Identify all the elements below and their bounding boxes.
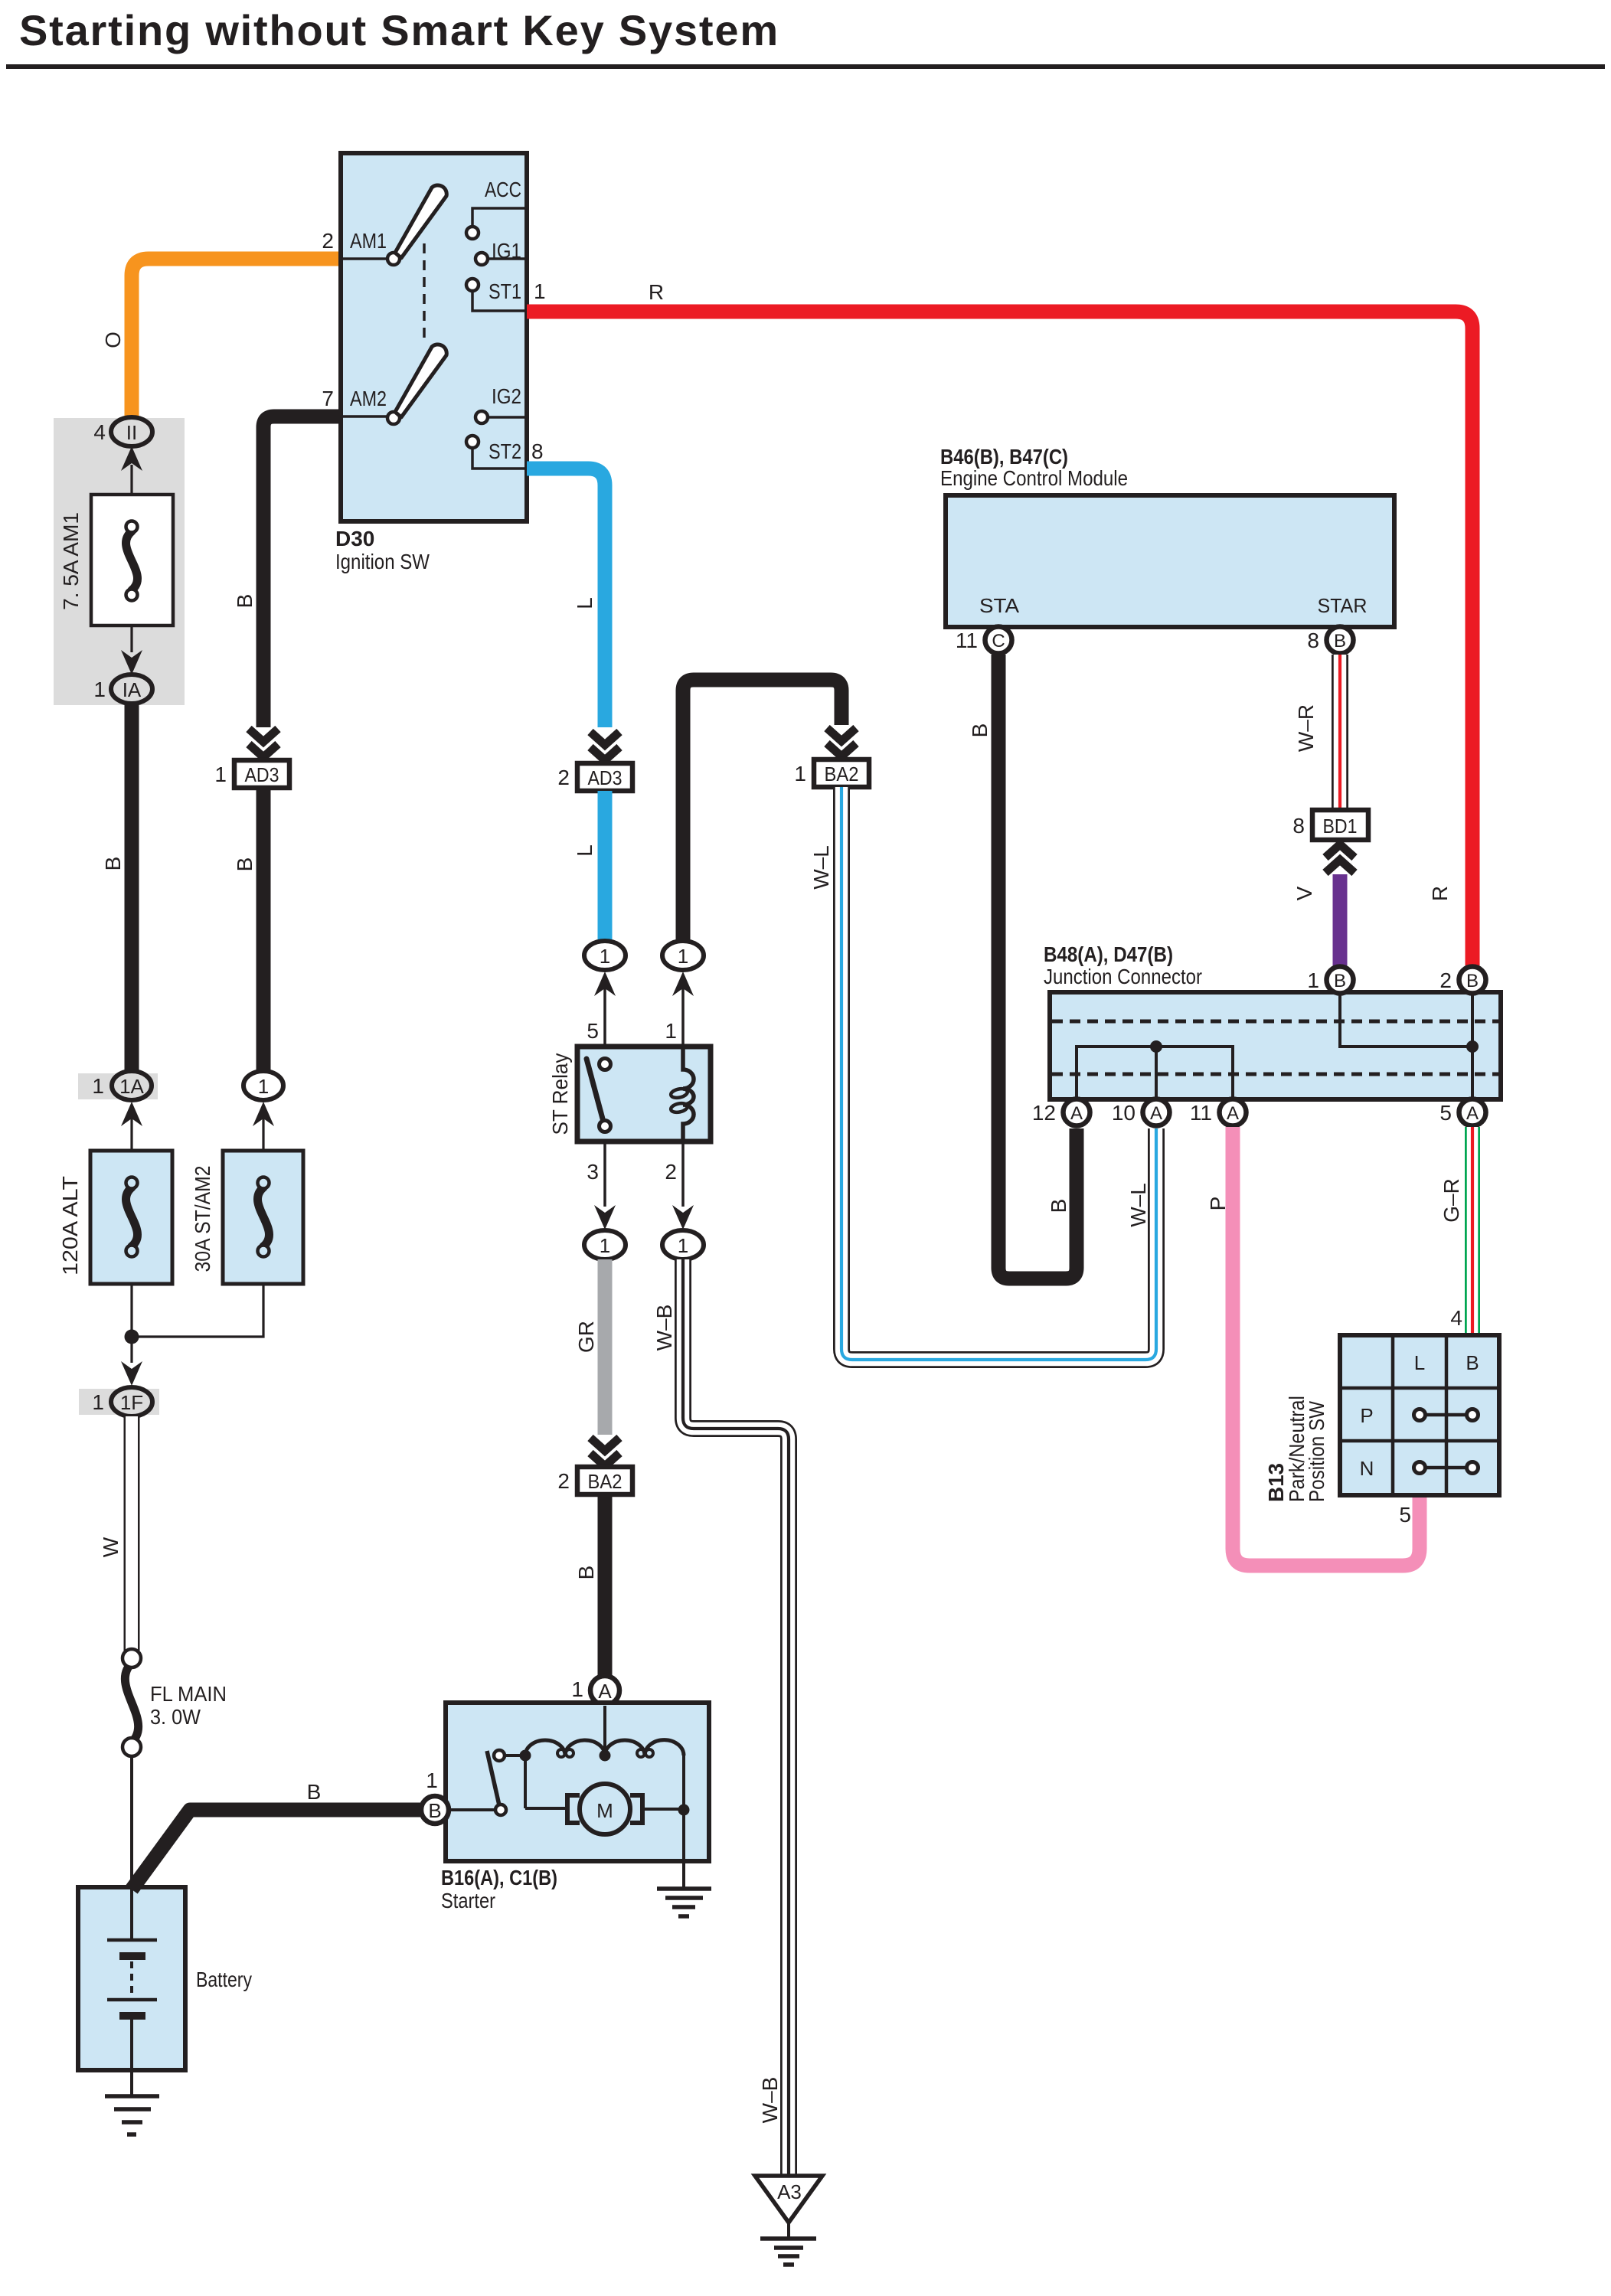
contact P row (1414, 1409, 1479, 1421)
wire 1A to fuse ALT (130, 1119, 132, 1152)
pin 8 label (1307, 629, 1319, 652)
label Battery (196, 1968, 252, 1991)
connector BA2 pin 2 (577, 1467, 632, 1494)
svg-text:II: II (126, 421, 137, 444)
svg-text:8: 8 (531, 439, 544, 463)
svg-text:V: V (1292, 886, 1316, 900)
svg-text:30A ST/AM2: 30A ST/AM2 (191, 1166, 214, 1272)
svg-text:O: O (101, 331, 125, 348)
arrow into node 1 below pin 2 (672, 1205, 694, 1230)
svg-text:Junction Connector: Junction Connector (1044, 965, 1202, 988)
svg-text:W–B: W–B (652, 1305, 676, 1351)
svg-text:W–L: W–L (809, 845, 833, 890)
svg-text:1: 1 (93, 678, 106, 701)
svg-text:1: 1 (534, 279, 546, 303)
terminal ACC (466, 178, 527, 239)
junction pin 5 A (1459, 1099, 1486, 1126)
svg-text:3: 3 (587, 1160, 599, 1184)
svg-text:1: 1 (678, 1234, 688, 1257)
battery box (78, 1887, 185, 2070)
arrow into 1F (121, 1361, 142, 1386)
fuse 30A ST/AM2 (223, 1151, 303, 1284)
svg-text:2: 2 (665, 1160, 677, 1184)
svg-text:ST1: ST1 (489, 279, 521, 303)
svg-text:1A: 1A (119, 1075, 144, 1098)
terminal AM1 (341, 253, 400, 265)
wire label P (1206, 1197, 1230, 1211)
svg-text:R: R (649, 280, 664, 304)
junction pin 2 B (1459, 967, 1486, 994)
relay switch contacts (587, 1059, 611, 1132)
svg-text:G–R: G–R (1439, 1178, 1463, 1223)
svg-text:5: 5 (587, 1019, 599, 1043)
svg-text:B: B (1334, 971, 1346, 991)
pin 2 label (557, 766, 570, 789)
ground A3 triangle (755, 2176, 822, 2223)
svg-text:BD1: BD1 (1323, 815, 1358, 838)
svg-text:B: B (1466, 971, 1479, 991)
label B16(A), C1(B) Starter (441, 1866, 557, 1912)
arrow double into AD3 (249, 729, 278, 757)
svg-text:B: B (1466, 1351, 1479, 1374)
fusible link FL MAIN 3.0W (123, 1649, 141, 1756)
svg-text:B: B (968, 723, 992, 738)
ground symbol below starter (657, 1889, 711, 1916)
arrow into 1A (121, 1102, 142, 1126)
starter coil 1 (525, 1740, 605, 1757)
junction pin 12 A (1064, 1099, 1090, 1126)
svg-text:B46(B), B47(C): B46(B), B47(C) (940, 445, 1068, 469)
label D30 Ignition SW (335, 527, 430, 573)
junction connector label B48(A), D47(B) (1044, 942, 1202, 988)
node 1 connector oval (col2) (243, 1071, 283, 1100)
svg-text:1: 1 (426, 1769, 438, 1792)
pin 2 label (1439, 968, 1452, 992)
svg-text:ST Relay: ST Relay (548, 1053, 572, 1135)
svg-text:AM2: AM2 (350, 387, 387, 410)
wire label L (573, 844, 596, 857)
node 1 oval above relay pin 1 (662, 941, 704, 970)
junction pin 10 A (1143, 1099, 1170, 1126)
wire coil2 to ground (682, 1755, 685, 1888)
wire label W-L (lower) (1126, 1183, 1150, 1227)
wire label B (307, 1780, 322, 1804)
pin 1 label (92, 1390, 104, 1414)
wire fuse ALT to junction (130, 1284, 132, 1337)
value label 7.5A AM1 (59, 512, 83, 610)
svg-text:Ignition SW: Ignition SW (335, 550, 430, 573)
wire label B (574, 1566, 598, 1580)
fuse block background (grey) (54, 418, 185, 705)
svg-text:FL MAIN: FL MAIN (150, 1682, 227, 1706)
svg-text:8: 8 (1292, 814, 1305, 838)
svg-text:B: B (574, 1566, 598, 1580)
node 1 A circle at starter (590, 1676, 619, 1705)
wire label W (99, 1537, 123, 1557)
svg-text:1: 1 (214, 763, 227, 786)
pin 1 label (665, 1019, 677, 1043)
wire junction to fuse ST/AM2 (132, 1284, 263, 1337)
wire B (black) from node 1 up over to BA2 (683, 680, 841, 941)
wire FL MAIN to battery (130, 1756, 133, 1888)
node 1A connector oval (112, 1071, 152, 1100)
connector AD3 pin 2 (577, 763, 632, 791)
node 1F grey band (79, 1389, 159, 1415)
svg-text:L: L (1414, 1351, 1425, 1374)
ground symbol below A3 (760, 2223, 816, 2265)
terminal IG1 (475, 239, 527, 265)
svg-text:B: B (1047, 1199, 1070, 1213)
svg-text:B16(A), C1(B): B16(A), C1(B) (441, 1866, 557, 1889)
junction dot (678, 1804, 690, 1816)
svg-text:2: 2 (1439, 968, 1452, 992)
terminal IG2 (475, 384, 527, 423)
svg-text:C: C (992, 631, 1005, 652)
pin 1 label (534, 279, 546, 303)
wire label O (101, 331, 125, 348)
svg-text:1: 1 (258, 1075, 269, 1098)
wire label G-R (1439, 1178, 1463, 1223)
svg-text:1: 1 (92, 1074, 104, 1098)
node II connector oval (111, 417, 152, 446)
wire B from IA to 1A (black) (125, 704, 139, 1072)
svg-text:N: N (1360, 1457, 1374, 1480)
pin 2 label (665, 1160, 677, 1184)
label N (1360, 1457, 1374, 1480)
pin 3 label (587, 1160, 599, 1184)
pin 1 label (426, 1769, 438, 1792)
wire label V (1292, 886, 1316, 900)
fuse 120A ALT (90, 1151, 172, 1284)
pin 1 label (93, 678, 106, 701)
dashed link (423, 243, 426, 341)
title: Starting without Smart Key System (6, 6, 1605, 69)
starter internal switch (449, 1750, 521, 1815)
svg-text:5: 5 (1399, 1503, 1411, 1527)
svg-text:IA: IA (123, 678, 142, 701)
pin 4 label (1450, 1306, 1462, 1330)
svg-text:GR: GR (574, 1321, 598, 1353)
svg-text:12: 12 (1032, 1101, 1056, 1125)
junction connector bus dashed lines (1052, 1021, 1498, 1074)
pin 2 label (322, 229, 334, 253)
wire relay pin 3 down (603, 1141, 606, 1207)
svg-text:STAR: STAR (1318, 594, 1368, 617)
connector AD3 pin 1 (234, 760, 289, 788)
pin 10 label (1112, 1101, 1136, 1125)
wire W-R from ECM STAR to BD1 (1332, 655, 1348, 810)
svg-text:BA2: BA2 (825, 763, 859, 785)
svg-text:B: B (101, 857, 125, 871)
wire node to relay pin 5 (603, 988, 606, 1048)
svg-text:5: 5 (1439, 1101, 1452, 1125)
battery symbol (107, 1887, 157, 2070)
arrow double into BA2 (1) (827, 728, 856, 756)
pin 8 label (1292, 814, 1305, 838)
pin 5 label (1439, 1101, 1452, 1125)
pin 7 label (322, 387, 334, 410)
wire GR (grey) from node to BA2 (2) (598, 1259, 613, 1435)
park/neutral position switch B13 box (1340, 1335, 1499, 1495)
wire W-B from relay node to ground A3 (683, 1259, 789, 2176)
pin 5 label (1399, 1503, 1411, 1527)
connector BA2 pin 1 (814, 759, 869, 787)
junction pin 1 B (1327, 967, 1354, 994)
pin 11 label (1190, 1101, 1212, 1125)
wire node1 to fuse ST/AM2 (262, 1119, 264, 1152)
pin 1 label (214, 763, 227, 786)
svg-text:ACC: ACC (485, 178, 521, 201)
svg-text:1: 1 (600, 1234, 610, 1257)
wire relay pin 2 down (681, 1141, 685, 1207)
svg-text:11: 11 (1190, 1101, 1212, 1125)
svg-text:1: 1 (571, 1677, 583, 1701)
node 1 oval above relay pin 5 (584, 941, 626, 970)
svg-text:A: A (1466, 1103, 1479, 1124)
pin 1 label (571, 1677, 583, 1701)
wire from A into coil (603, 1706, 606, 1752)
arrow into IA (121, 650, 142, 674)
wire label L (573, 597, 596, 609)
wire label GR (574, 1321, 598, 1353)
wire R (red) from ST1 to junction connector 2B (527, 312, 1472, 965)
arrow into node 1 (672, 972, 694, 996)
value label FL MAIN 3.0W (150, 1682, 227, 1729)
wire G-R from junction 5A to B13 pin 4 (1465, 1127, 1480, 1335)
wire label B (lower) (1047, 1199, 1070, 1213)
svg-text:IG2: IG2 (492, 384, 521, 408)
label AM1 (350, 229, 387, 253)
wire L (blue) from AD3 to node 1 (598, 791, 613, 939)
ignition switch D30 box (341, 153, 527, 521)
wire B (black) from ECM STA to junction 12A (998, 655, 1077, 1279)
svg-text:1: 1 (1307, 968, 1319, 992)
svg-text:STA: STA (979, 594, 1020, 617)
ground symbol below battery (105, 2070, 159, 2134)
arrow into node 1 below pin 3 (594, 1205, 616, 1230)
wire fuse AM1 to IA (130, 625, 132, 652)
connector BD1 pin 8 (1312, 810, 1368, 840)
wire label R (649, 280, 664, 304)
svg-text:W–L: W–L (1126, 1183, 1150, 1227)
node 1F connector oval (111, 1387, 152, 1416)
svg-text:A3: A3 (777, 2180, 802, 2203)
terminal ST1 (466, 279, 527, 311)
pin 5 label (587, 1019, 599, 1043)
svg-text:Position SW: Position SW (1305, 1401, 1328, 1502)
arrow double out of BD1 (1325, 844, 1354, 873)
svg-text:1: 1 (92, 1390, 104, 1414)
starter box B16(A), C1(B) (446, 1703, 709, 1861)
label STA (979, 594, 1020, 617)
svg-text:Starting without Smart Key Sys: Starting without Smart Key System (19, 6, 779, 54)
wire B from AD3 to node 1 (black) (257, 788, 271, 1072)
wire L (blue) from ST2 to AD3 (527, 469, 605, 727)
junction node dot (125, 1330, 139, 1344)
svg-text:P: P (1206, 1197, 1230, 1211)
label B (1466, 1351, 1479, 1374)
svg-text:120A ALT: 120A ALT (58, 1176, 82, 1275)
wire B from AM2 to AD3 (black) (263, 416, 341, 727)
lever AM2 (395, 345, 446, 417)
junction dot (520, 1750, 531, 1762)
svg-text:2: 2 (322, 229, 334, 253)
wire V (purple) from BD1 to junction 1B (1333, 874, 1348, 965)
svg-text:4: 4 (1450, 1306, 1462, 1330)
wire label W-R (1294, 704, 1318, 752)
label AM2 (350, 387, 387, 410)
pin 12 label (1032, 1101, 1056, 1125)
svg-text:L: L (573, 844, 596, 857)
fuse 7.5A AM1 (91, 495, 173, 625)
svg-text:1: 1 (665, 1019, 677, 1043)
relay coil (670, 1048, 694, 1141)
svg-text:W–R: W–R (1294, 704, 1318, 752)
svg-text:D30: D30 (335, 527, 374, 550)
value label 120A ALT (58, 1176, 82, 1275)
label P (1360, 1404, 1373, 1427)
arrow double into BA2 (2) (590, 1438, 619, 1466)
pin 1 label (92, 1074, 104, 1098)
wire B (black) from BA2 to starter A (598, 1494, 613, 1675)
ECM box (946, 495, 1394, 627)
arrow into II (121, 446, 142, 471)
wire label W-B (lower) (758, 2077, 782, 2124)
svg-text:L: L (573, 597, 596, 609)
svg-text:BA2: BA2 (588, 1470, 623, 1493)
svg-text:7: 7 (322, 387, 334, 410)
ECM pin 11 C (985, 627, 1012, 654)
wire B (black) battery to starter B (132, 1810, 420, 1889)
wire junction to 1F (130, 1337, 132, 1363)
svg-text:AM1: AM1 (350, 229, 387, 253)
node 1A grey band (78, 1073, 158, 1099)
arrow double into AD3 (2) (590, 732, 619, 760)
wire W-L from BA2 to junction connector 10A (841, 787, 1156, 1360)
svg-text:A: A (1070, 1103, 1083, 1124)
wire label B (233, 857, 257, 872)
svg-text:ST2: ST2 (489, 439, 521, 463)
wire label W-L (809, 845, 833, 890)
svg-text:3. 0W: 3. 0W (150, 1705, 201, 1729)
node 1 oval below relay pin 3 (584, 1230, 626, 1259)
svg-text:1: 1 (794, 762, 806, 785)
junction connector box (1050, 992, 1501, 1099)
contact N row (1414, 1462, 1479, 1474)
pin 11 label (956, 629, 978, 652)
svg-text:B: B (233, 594, 257, 609)
wire label B (968, 723, 992, 738)
svg-text:AD3: AD3 (245, 763, 279, 786)
label ST Relay (548, 1053, 572, 1135)
svg-text:B: B (428, 1799, 441, 1822)
svg-text:2: 2 (557, 766, 570, 789)
svg-text:AD3: AD3 (588, 766, 623, 789)
relay ST Relay box (577, 1047, 711, 1141)
terminal AM2 (341, 412, 400, 424)
pin 1 label (1307, 968, 1319, 992)
svg-text:1: 1 (600, 945, 610, 968)
svg-text:W–B: W–B (758, 2077, 782, 2124)
svg-text:7. 5A AM1: 7. 5A AM1 (59, 512, 83, 610)
ECM label B46(B), B47(C) Engine Control Module (940, 445, 1128, 490)
svg-text:P: P (1360, 1404, 1373, 1427)
svg-text:8: 8 (1307, 629, 1319, 652)
wire label W-B (652, 1305, 676, 1351)
wire node to relay pin 1 (681, 988, 685, 1048)
junction pin 11 A (1220, 1099, 1247, 1126)
wire label B (233, 594, 257, 609)
value label 30A ST/AM2 (191, 1166, 214, 1272)
pin 2 label (557, 1469, 570, 1493)
starter coil 2 (605, 1740, 684, 1757)
svg-text:W: W (99, 1537, 123, 1557)
svg-text:11: 11 (956, 629, 978, 652)
wire label R (vertical) (1428, 886, 1452, 901)
svg-text:A: A (598, 1680, 612, 1703)
svg-text:Battery: Battery (196, 1968, 252, 1991)
svg-text:B48(A), D47(B): B48(A), D47(B) (1044, 942, 1173, 966)
svg-text:1: 1 (678, 945, 688, 968)
svg-text:B: B (233, 857, 257, 872)
svg-text:M: M (596, 1799, 613, 1822)
wire O (orange) from ignition SW AM1 to fuse block (132, 259, 341, 418)
svg-text:4: 4 (93, 420, 106, 444)
wire II to fuse AM1 (130, 465, 132, 496)
wire label B (101, 857, 125, 871)
svg-text:B: B (1334, 631, 1346, 652)
svg-text:Starter: Starter (441, 1889, 495, 1912)
starter motor M (525, 1755, 678, 1834)
svg-text:1F: 1F (120, 1391, 143, 1414)
label STAR (1318, 594, 1368, 617)
label B13 Park/Neutral Position SW (1264, 1396, 1328, 1502)
pin 1 label (794, 762, 806, 785)
svg-text:A: A (1150, 1103, 1162, 1124)
pin 4 label (93, 420, 106, 444)
node 1 B circle at starter (421, 1796, 449, 1824)
arrow into node 1 (col2) (253, 1102, 274, 1126)
wire W (white) from 1F to FL MAIN (124, 1416, 140, 1651)
wire P (pink) from junction 11A to B13 pin 5 (1233, 1127, 1420, 1566)
junction dot (600, 1750, 611, 1762)
svg-text:A: A (1227, 1103, 1239, 1124)
lever AM1 (395, 185, 446, 258)
svg-text:B: B (307, 1780, 322, 1804)
pin 8 label (531, 439, 544, 463)
node 1 oval below relay pin 2 (662, 1230, 704, 1259)
label L (1414, 1351, 1425, 1374)
svg-text:Engine Control Module: Engine Control Module (940, 466, 1128, 490)
node IA connector oval (111, 674, 152, 704)
svg-text:R: R (1428, 886, 1452, 901)
ECM pin 8 B (1327, 627, 1354, 654)
junction internal wiring right (1340, 994, 1479, 1098)
junction internal wiring left (1077, 1040, 1233, 1098)
terminal ST2 (466, 436, 527, 469)
svg-text:10: 10 (1112, 1101, 1136, 1125)
arrow into node 1 (594, 972, 616, 996)
svg-text:2: 2 (557, 1469, 570, 1493)
